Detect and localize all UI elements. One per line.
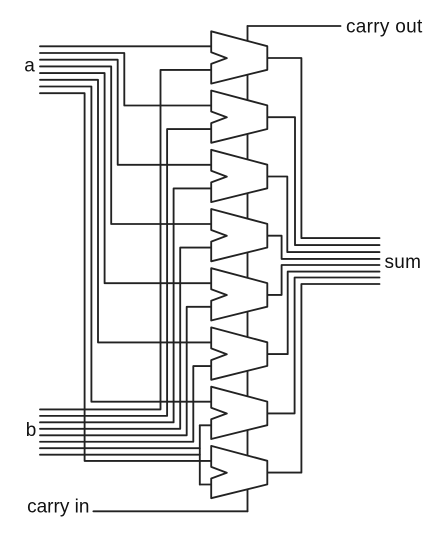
- wire carry chain vertical: [247, 26, 249, 511]
- wire a bit 5 to block U3 upper input: [40, 60, 211, 165]
- wire a bit 6 to block U2 upper input: [40, 53, 211, 106]
- svg-text:sum: sum: [385, 252, 422, 273]
- wire a bit 2 to block U6 upper input: [40, 80, 211, 343]
- adder block U4: [211, 209, 267, 261]
- wire b bit 6 to block U2 lower input: [40, 129, 211, 416]
- wire sum bit 1 from block U7 output: [267, 278, 379, 414]
- svg-text:a: a: [24, 56, 35, 77]
- wire a bit 3 to block U5 upper input: [40, 73, 211, 283]
- wire sum bit 5 from block U3 output: [267, 177, 379, 253]
- adder block U7: [211, 387, 267, 439]
- adder block U1: [211, 31, 267, 83]
- wire carry out horizontal: [248, 25, 341, 27]
- svg-text:b: b: [26, 420, 37, 441]
- adder block U8: [211, 446, 267, 498]
- wire sum bit 2 from block U6 output: [267, 272, 379, 355]
- wire a bit 0 to block U8 upper input: [40, 93, 211, 461]
- wire carry in horizontal: [93, 510, 247, 512]
- wire a bit 4 to block U4 upper input: [40, 66, 211, 224]
- adder block U3: [211, 150, 267, 202]
- wire sum bit 7 from block U1 output: [267, 58, 379, 238]
- wire sum bit 0 from block U8 output: [267, 284, 379, 473]
- wire sum bit 4 from block U4 output: [267, 236, 379, 259]
- wire b bit 0 horizontal: [40, 454, 200, 456]
- wire block U7 lower input stub: [200, 424, 211, 426]
- wire sum bit 6 from block U2 output: [267, 117, 379, 245]
- wire b bit 5 to block U3 lower input: [40, 188, 211, 422]
- adder block U5: [211, 268, 267, 320]
- svg-text:carry out: carry out: [346, 17, 423, 38]
- wire block U8 lower input stub: [200, 484, 211, 486]
- adder block U2: [211, 91, 267, 143]
- svg-text:carry in: carry in: [27, 497, 89, 518]
- wire b bit 4 to block U4 lower input: [40, 248, 211, 429]
- wire a bit 1 to block U7 upper input: [40, 87, 211, 402]
- wire b bit 2 to block U6 lower input: [40, 366, 211, 442]
- wire b bit 1 horizontal: [40, 447, 200, 449]
- wire b bit 3 to block U5 lower input: [40, 307, 211, 435]
- wire a bit 7 to block U1 upper input: [40, 45, 211, 47]
- adder block U6: [211, 327, 267, 379]
- wire shared vertical for b bits 1 and 0: [199, 425, 201, 484]
- wire b bit 7 to block U1 lower input: [40, 70, 211, 410]
- wire sum bit 3 from block U5 output: [267, 265, 379, 295]
